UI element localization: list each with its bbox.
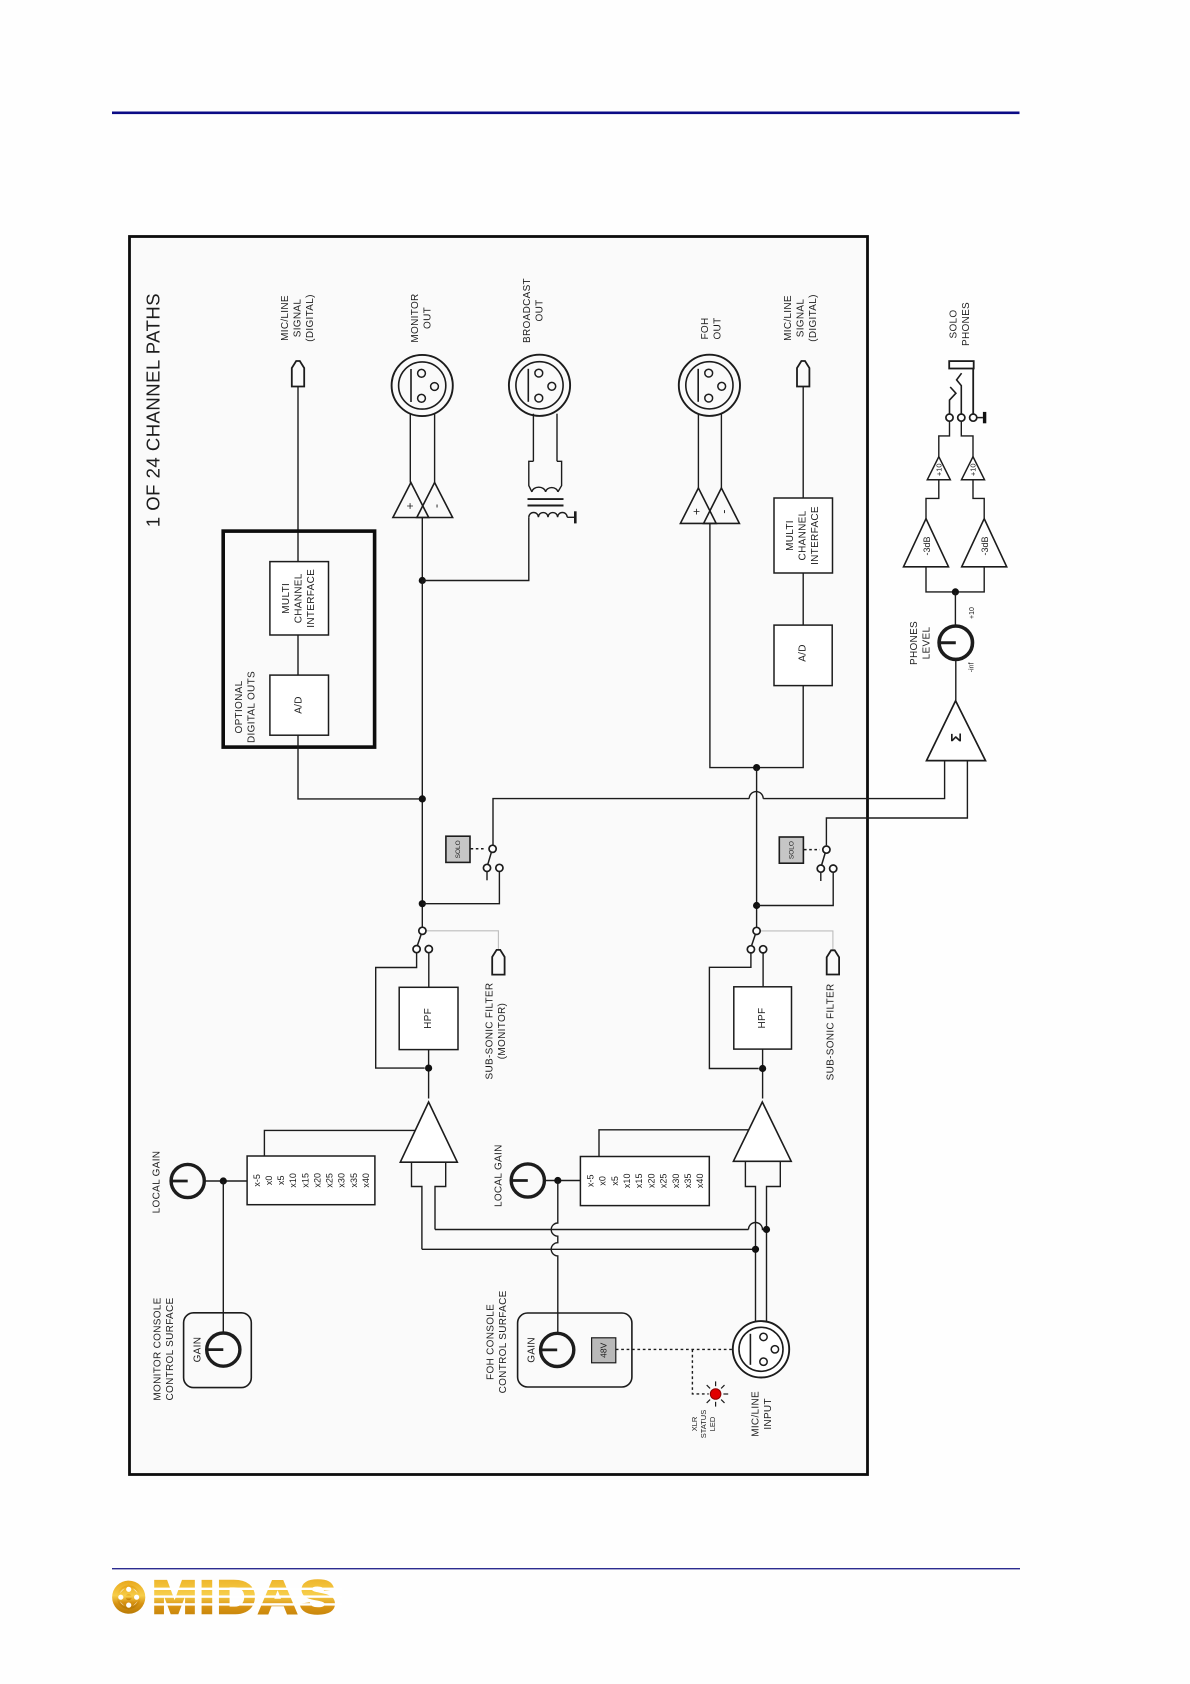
svg-text:MIC/LINE: MIC/LINE [783, 295, 794, 341]
svg-text:CHANNEL: CHANNEL [798, 510, 809, 560]
dotted branch to LED [692, 1349, 708, 1394]
svg-text:PHONES: PHONES [909, 621, 920, 665]
box A/D monitor [270, 675, 329, 735]
jack tip spring [957, 373, 962, 414]
svg-text:+: + [403, 502, 417, 509]
svg-text:x-5: x-5 [585, 1175, 595, 1188]
wire HPF out FOH [762, 1049, 764, 1098]
wire to console gain monitor [222, 1181, 224, 1333]
box A/D FOH [774, 625, 832, 686]
wire pot to scale box FOH [544, 1180, 580, 1182]
wire FOH drivers down to node [710, 523, 757, 767]
driver amp + monitor [393, 483, 429, 518]
wire pot to sigma [955, 659, 957, 700]
connector J-digital-monitor [292, 361, 304, 387]
node monitor-broadcast [419, 577, 426, 584]
svg-text:SOLO: SOLO [455, 840, 462, 858]
pot local gain monitor [171, 1164, 204, 1197]
svg-text:FOH: FOH [700, 317, 711, 339]
wires +10 to -3dB [926, 480, 939, 519]
XLR mic/line input [733, 1321, 789, 1377]
-3dB amp right [962, 519, 1007, 567]
svg-text:48V: 48V [599, 1342, 609, 1357]
node monitor A/D tap [419, 795, 426, 802]
node local gain monitor [220, 1177, 227, 1184]
connector subsonic FOH [827, 950, 839, 974]
wire switch to HPF FOH [762, 953, 764, 987]
gain scale link monitor [264, 1130, 415, 1156]
ground stub broadcast [574, 511, 577, 523]
wire FOH channel vertical [756, 768, 758, 928]
SOLO button FOH [779, 837, 803, 863]
svg-text:LEVEL: LEVEL [922, 627, 933, 660]
LED XLR status [710, 1389, 721, 1400]
svg-text:x0: x0 [598, 1176, 608, 1186]
svg-text:SOLO: SOLO [949, 310, 960, 339]
wire MCI to A/D FOH [802, 573, 804, 625]
gain scale box monitor [247, 1156, 375, 1205]
solo switch FOH contacts [823, 846, 830, 853]
svg-text:GAIN: GAIN [193, 1337, 204, 1363]
transformer T1 primary [529, 461, 534, 492]
wire A/D monitor to channel node [298, 735, 422, 799]
node FOH solo return [753, 902, 760, 909]
gain scale link FOH [599, 1130, 749, 1157]
wire solo bus monitor to sigma [493, 799, 749, 846]
transformer T1 core [528, 498, 564, 500]
wire plug to MCI [297, 387, 299, 562]
svg-text:x40: x40 [695, 1174, 705, 1189]
svg-text:x30: x30 [671, 1174, 681, 1189]
svg-text:-: - [716, 509, 730, 513]
svg-text:MONITOR CONSOLE: MONITOR CONSOLE [153, 1297, 164, 1400]
box MULTI CHANNEL INTERFACE FOH [774, 498, 833, 573]
box OPTIONAL DIGITAL OUTS [223, 531, 374, 747]
svg-text:CONTROL SURFACE: CONTROL SURFACE [498, 1290, 509, 1393]
driver amp + FOH [680, 488, 716, 523]
wire pot to scale box monitor [204, 1180, 247, 1182]
dotted 48V to XLR [616, 1348, 733, 1350]
svg-text:A/D: A/D [294, 696, 305, 714]
svg-text:-inf: -inf [968, 662, 975, 672]
wires -3dB join [926, 567, 984, 592]
box HPF monitor [399, 987, 458, 1049]
node phones join [952, 588, 959, 595]
svg-text:HPF: HPF [423, 1008, 434, 1029]
svg-text:CHANNEL: CHANNEL [294, 573, 305, 623]
dotted link FOH solo [804, 849, 820, 851]
svg-text:INTERFACE: INTERFACE [810, 506, 821, 565]
box MULTI CHANNEL INTERFACE monitor [270, 562, 329, 635]
svg-text:x35: x35 [349, 1173, 359, 1188]
wires XLR to drivers FOH [697, 414, 699, 488]
svg-text:SIGNAL: SIGNAL [292, 299, 303, 338]
svg-text:LED: LED [708, 1416, 717, 1431]
wire solo monitor to channel [422, 872, 499, 904]
node HPF bypass join monitor [425, 1065, 432, 1072]
svg-text:HPF: HPF [757, 1008, 768, 1029]
jack contacts [946, 414, 953, 421]
svg-text:MULTI: MULTI [281, 583, 292, 614]
svg-text:LOCAL GAIN: LOCAL GAIN [152, 1151, 163, 1214]
gain amp FOH tab [745, 1161, 755, 1321]
node HPF bypass join FOH [759, 1065, 766, 1072]
svg-text:MIC/LINE: MIC/LINE [750, 1391, 761, 1437]
svg-text:INPUT: INPUT [763, 1398, 774, 1430]
svg-text:PHONES: PHONES [961, 302, 972, 346]
logo MIDAS emblem [112, 1581, 145, 1614]
svg-text:+10: +10 [969, 463, 978, 476]
XLR broadcast out [509, 355, 570, 416]
wire solo bus FOH to sigma [826, 761, 967, 846]
node FOH join [753, 764, 760, 771]
svg-text:x25: x25 [659, 1174, 669, 1189]
connector J-digital-FOH [797, 361, 809, 387]
SOLO button monitor [446, 836, 470, 862]
transformer T1 secondary [529, 512, 567, 517]
svg-text:DIGITAL OUTS: DIGITAL OUTS [246, 671, 257, 743]
wire FOH local gain down with hops [551, 1181, 558, 1334]
HPF bypass monitor [376, 953, 425, 1068]
node bus lower join [752, 1246, 759, 1253]
svg-text:MULTI: MULTI [785, 520, 796, 551]
wire to broadcast transformer [422, 517, 529, 580]
svg-text:x20: x20 [646, 1174, 656, 1189]
svg-text:x15: x15 [634, 1174, 644, 1189]
svg-text:x10: x10 [288, 1173, 298, 1188]
svg-text:OPTIONAL: OPTIONAL [234, 680, 245, 733]
connector subsonic monitor [492, 950, 504, 975]
svg-text:FOH CONSOLE: FOH CONSOLE [486, 1304, 497, 1380]
XLR FOH out [679, 355, 740, 416]
wire monitor channel vertical [421, 581, 423, 928]
schematic frame [130, 237, 868, 1475]
svg-text:+10: +10 [969, 607, 976, 619]
bottom rule [112, 1568, 1020, 1569]
HPF switch FOH [753, 927, 760, 934]
sigma amp [927, 701, 986, 761]
svg-text:x20: x20 [312, 1173, 322, 1188]
svg-text:x-5: x-5 [252, 1174, 262, 1187]
wire secondary to ground bar [567, 516, 575, 518]
pot phones level [939, 626, 972, 659]
wire MCI to A/D monitor [297, 635, 299, 675]
node bus upper join [763, 1226, 770, 1233]
svg-text:SUB-SONIC FILTER: SUB-SONIC FILTER [484, 983, 495, 1080]
svg-text:-3dB: -3dB [922, 536, 932, 555]
svg-text:GAIN: GAIN [526, 1337, 537, 1363]
svg-text:(DIGITAL): (DIGITAL) [305, 294, 316, 342]
svg-text:OUT: OUT [422, 307, 433, 329]
svg-text:x0: x0 [264, 1176, 274, 1186]
logo MIDAS wordmark [150, 1571, 342, 1623]
HPF bypass FOH [709, 953, 758, 1069]
pot console gain monitor [207, 1333, 240, 1366]
box HPF FOH [734, 987, 792, 1049]
-3dB amp left [904, 519, 949, 567]
wire solo FOH to channel [757, 872, 834, 905]
svg-text:(MONITOR): (MONITOR) [497, 1003, 508, 1059]
dotted link monitor solo [471, 848, 486, 850]
svg-text:CONTROL SURFACE: CONTROL SURFACE [165, 1297, 176, 1400]
gain amp monitor tab [412, 1162, 422, 1249]
gain amp monitor [400, 1102, 457, 1162]
pot local gain FOH [511, 1164, 544, 1197]
svg-text:-: - [429, 504, 443, 508]
subsonic link FOH [760, 931, 833, 951]
svg-text:LOCAL GAIN: LOCAL GAIN [493, 1144, 504, 1207]
wire plug to MCI FOH [802, 387, 804, 499]
jack ring spring [950, 387, 956, 414]
phones jack [949, 361, 974, 368]
wires XLR to drivers monitor [409, 414, 411, 483]
svg-text:+10: +10 [934, 463, 943, 476]
HPF switch monitor [419, 927, 426, 934]
box monitor console [184, 1313, 252, 1388]
svg-text:A/D: A/D [798, 644, 809, 662]
svg-text:INTERFACE: INTERFACE [306, 569, 317, 628]
+10 amp left [927, 457, 950, 480]
svg-text:XLR: XLR [690, 1416, 699, 1431]
pot console gain FOH [541, 1333, 574, 1366]
wire switch to HPF monitor [428, 953, 430, 988]
svg-text:+: + [690, 508, 704, 515]
svg-text:STATUS: STATUS [699, 1410, 708, 1438]
svg-text:SUB-SONIC FILTER: SUB-SONIC FILTER [826, 983, 837, 1080]
box FOH console [518, 1313, 632, 1387]
svg-text:x30: x30 [337, 1173, 347, 1188]
48V phantom switch [592, 1338, 616, 1363]
wires XLR to transformer [532, 414, 534, 462]
svg-text:MIC/LINE: MIC/LINE [280, 295, 291, 341]
svg-text:-3dB: -3dB [980, 536, 990, 555]
svg-text:x5: x5 [276, 1176, 286, 1186]
wire to phones pot [954, 592, 956, 626]
top rule [112, 112, 1020, 115]
wire HPF out monitor [428, 1050, 430, 1099]
svg-text:x15: x15 [300, 1173, 310, 1188]
svg-text:1 OF 24 CHANNEL PATHS: 1 OF 24 CHANNEL PATHS [142, 293, 163, 527]
wires jack to +10 amps [939, 421, 950, 457]
node local gain FOH [554, 1177, 561, 1184]
bus lower amp inputs [422, 1248, 756, 1250]
svg-text:x5: x5 [610, 1176, 620, 1186]
svg-text:(DIGITAL): (DIGITAL) [808, 294, 819, 342]
subsonic link monitor [426, 931, 498, 950]
svg-text:Σ: Σ [948, 733, 965, 742]
svg-text:x10: x10 [622, 1174, 632, 1189]
svg-text:MONITOR: MONITOR [410, 293, 421, 342]
svg-text:x35: x35 [683, 1174, 693, 1189]
svg-text:x40: x40 [361, 1173, 371, 1188]
svg-text:OUT: OUT [712, 317, 723, 339]
hop over FOH line [749, 792, 763, 799]
+10 amp right [962, 457, 985, 480]
svg-text:SIGNAL: SIGNAL [795, 299, 806, 338]
bus upper amp inputs [435, 1229, 749, 1231]
gain scale box FOH [580, 1157, 709, 1206]
driver amp - FOH [704, 488, 740, 523]
driver amp - monitor [417, 483, 453, 518]
svg-text:BROADCAST: BROADCAST [522, 278, 533, 343]
node monitor solo return [419, 900, 426, 907]
wire monitor drivers down [421, 518, 423, 581]
solo switch monitor contacts [489, 845, 496, 852]
gain amp FOH [733, 1102, 791, 1161]
XLR monitor out [392, 355, 453, 416]
svg-text:SOLO: SOLO [789, 841, 796, 859]
svg-text:OUT: OUT [535, 299, 546, 321]
svg-text:x25: x25 [325, 1173, 335, 1188]
ground bar phones [977, 417, 983, 419]
wire A/D FOH down to node [757, 686, 804, 768]
